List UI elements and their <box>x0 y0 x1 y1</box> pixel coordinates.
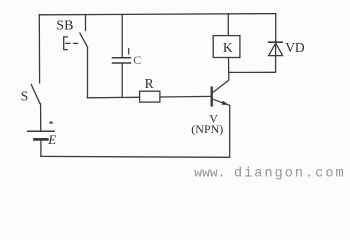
wire right rail down to diode <box>275 14 277 43</box>
wire capacitor drop from top rail <box>121 15 123 58</box>
svg-text:www.: www. <box>194 165 225 180</box>
wire bottom rail <box>41 155 230 158</box>
svg-text:R: R <box>145 76 154 91</box>
pushbutton SB actuator dashed link <box>66 42 79 44</box>
transistor V emitter lead <box>213 99 230 105</box>
svg-text:(NPN): (NPN) <box>191 122 223 136</box>
pushbutton SB actuator bracket <box>64 37 68 50</box>
relay coil K box <box>213 36 240 58</box>
resistor R body <box>140 91 160 102</box>
wire collector node to diode <box>229 71 276 73</box>
svg-text:S: S <box>21 88 29 103</box>
wire battery to bottom rail <box>40 141 42 157</box>
wire resistor to base <box>160 95 212 98</box>
svg-text:K: K <box>223 40 233 55</box>
wire SB to node <box>87 47 89 98</box>
transistor V emitter arrowhead <box>221 101 228 105</box>
pushbutton SB upper terminal <box>85 15 87 31</box>
svg-text:E: E <box>47 132 56 147</box>
wire top rail <box>39 14 276 15</box>
capacitor C top plate <box>112 57 130 59</box>
wire left rail <box>38 15 40 84</box>
svg-text:SB: SB <box>56 19 73 34</box>
capacitor C polarity tick <box>128 49 130 54</box>
svg-text:VD: VD <box>285 40 305 55</box>
wire S to battery <box>40 104 42 132</box>
switch S <box>31 84 40 104</box>
battery E negative plate <box>34 138 47 141</box>
wire top rail down to relay K <box>227 14 229 36</box>
battery E positive plate <box>28 130 55 132</box>
diode VD triangle <box>269 43 283 55</box>
battery polarity mark <box>49 121 53 124</box>
transistor V base bar <box>210 87 212 105</box>
wire node to resistor R <box>87 96 139 99</box>
wire relay K to collector node <box>228 58 230 73</box>
diode VD cathode bar <box>268 41 282 43</box>
capacitor C bottom plate <box>112 62 130 64</box>
svg-text:diangon.com: diangon.com <box>234 166 346 181</box>
svg-text:C: C <box>133 53 141 67</box>
pushbutton SB lever <box>80 33 88 47</box>
wire emitter down to bottom rail <box>229 105 231 157</box>
transistor V collector lead <box>213 72 229 92</box>
wire diode to jumper <box>275 42 277 72</box>
wire capacitor to node <box>121 63 123 97</box>
